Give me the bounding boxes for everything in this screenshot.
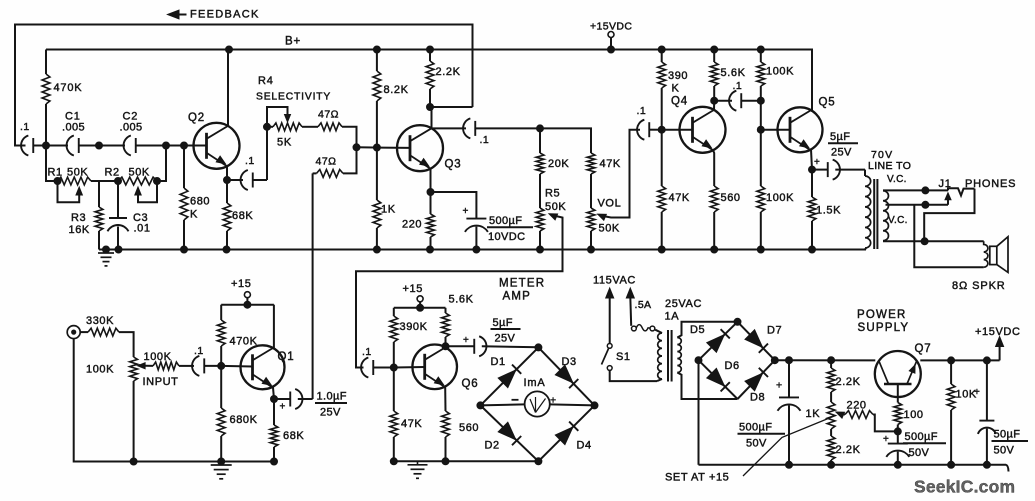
diode D5 <box>707 329 730 352</box>
junction <box>757 97 764 104</box>
label R5 50K <box>545 188 566 214</box>
diode D7 <box>745 330 768 353</box>
capacitor 500uF/50V filter1 <box>778 360 801 465</box>
label PHONES <box>965 178 1016 190</box>
svg-text:220: 220 <box>402 219 422 231</box>
wire feedback tap <box>430 106 473 108</box>
junction Q2 emitter node <box>224 177 231 184</box>
svg-text:5.6K: 5.6K <box>721 67 746 79</box>
resistor 5.6K <box>710 50 718 101</box>
svg-text:680: 680 <box>190 196 210 208</box>
svg-text:100K: 100K <box>144 351 172 363</box>
junction <box>417 304 424 311</box>
svg-text:.5A: .5A <box>635 299 652 311</box>
resistor 2.2K Q3 <box>426 50 434 108</box>
svg-text:.005: .005 <box>62 122 85 134</box>
wire <box>136 145 194 147</box>
feedback arrow <box>168 10 187 19</box>
connector input jack <box>67 326 80 339</box>
label + 1.0uF <box>280 402 286 413</box>
diode D2 <box>498 422 521 445</box>
svg-text:2.2K: 2.2K <box>436 66 461 78</box>
capacitor C1 .005 <box>67 136 79 156</box>
junction Q3 emitter node <box>427 189 434 196</box>
svg-text:R4: R4 <box>258 75 274 87</box>
label 8ohm SPKR <box>952 280 1006 292</box>
label 47ohm top <box>318 109 339 121</box>
svg-text:AMP: AMP <box>503 291 532 303</box>
resistor 47K mid <box>587 153 595 208</box>
ground <box>98 250 114 266</box>
diode D1 <box>498 365 521 388</box>
label 100 Q7 <box>904 409 924 421</box>
resistor 2.2K lower <box>827 429 835 465</box>
jack J1 plug <box>948 188 975 195</box>
wire R5 wiper <box>356 214 563 368</box>
label 680 K <box>190 196 210 221</box>
label 470K Q1 <box>230 336 258 348</box>
junction <box>828 461 835 468</box>
junction <box>537 125 544 132</box>
junction <box>223 246 230 253</box>
label Q4 <box>671 96 688 108</box>
wire 115VAC lead 1 <box>606 288 614 343</box>
label 5K <box>277 137 292 149</box>
svg-text:.1: .1 <box>362 346 372 358</box>
label 5uF 25V Q5 <box>828 131 858 159</box>
junction <box>757 246 764 253</box>
svg-text:ImA: ImA <box>524 377 546 389</box>
svg-text:.01: .01 <box>134 223 151 235</box>
bridge edge <box>480 405 538 461</box>
svg-text:SeekIC.com: SeekIC.com <box>914 477 1015 497</box>
label R4 <box>258 75 274 87</box>
svg-text:470K: 470K <box>54 82 83 94</box>
svg-text:390K: 390K <box>400 321 428 333</box>
speaker SPKR <box>990 237 1008 273</box>
bridge edge <box>699 360 738 399</box>
junction <box>948 357 955 364</box>
junction <box>809 246 816 253</box>
junction <box>218 458 225 465</box>
label + 50uF <box>974 387 980 398</box>
wire <box>79 145 125 147</box>
svg-text:330K: 330K <box>86 315 114 327</box>
label 47ohm bottom <box>316 156 337 168</box>
junction <box>181 246 188 253</box>
junction node A2 <box>96 142 103 149</box>
junction PSU bridge top <box>734 318 741 325</box>
capacitor 50uF/50V <box>978 360 996 464</box>
svg-text:50K: 50K <box>67 167 88 179</box>
svg-text:390: 390 <box>668 70 688 82</box>
label 10K <box>956 389 977 401</box>
bridge edge <box>738 360 775 399</box>
svg-text:1.5K: 1.5K <box>816 205 841 217</box>
resistor 5.6K meter <box>442 308 450 347</box>
svg-text:.1: .1 <box>637 105 647 117</box>
label 47K Q4 <box>669 192 690 204</box>
wire input wiper <box>138 363 153 369</box>
wire <box>540 128 591 153</box>
label + 5uF meter <box>463 335 469 346</box>
potentiometer R5 50K <box>536 208 544 250</box>
label 390K meter <box>400 321 428 333</box>
wire Q6 emitter <box>444 387 446 411</box>
svg-text:Q7: Q7 <box>915 343 932 355</box>
svg-text:100: 100 <box>904 409 924 421</box>
svg-text:Q1: Q1 <box>278 351 295 363</box>
label 1K <box>381 204 396 216</box>
label plus <box>550 395 556 407</box>
svg-text:50µF: 50µF <box>994 429 1021 441</box>
junction B+/100K <box>757 46 764 53</box>
wire Q1 emitter <box>273 388 274 400</box>
svg-text:.1: .1 <box>194 345 204 357</box>
label 500uF 50V filter2 <box>903 431 946 459</box>
label 2.2K Q3 <box>436 66 461 78</box>
resistor 680K Q1 <box>217 366 225 462</box>
label D7 <box>767 325 782 337</box>
svg-text:47K: 47K <box>669 192 690 204</box>
junction <box>264 123 271 130</box>
label SELECTIVITY <box>256 92 331 103</box>
label + 500uF <box>463 206 469 217</box>
label R3 16K <box>69 212 90 236</box>
svg-text:D7: D7 <box>767 325 782 337</box>
svg-text:16K: 16K <box>69 224 90 236</box>
resistor 220 PSU <box>845 411 898 432</box>
label B+ <box>285 36 301 48</box>
label minus <box>512 399 519 401</box>
capacitor .1 Q1 in <box>192 356 221 376</box>
svg-text:D2: D2 <box>485 440 500 452</box>
bridge edge <box>699 322 738 360</box>
svg-text:1.0µF: 1.0µF <box>317 391 347 403</box>
terminal +15VDC top <box>608 32 614 50</box>
wire <box>475 127 540 129</box>
junction <box>786 461 793 468</box>
svg-text:SELECTIVITY: SELECTIVITY <box>256 92 331 103</box>
label 8.2K <box>384 84 409 96</box>
wire speaker loop <box>914 205 983 267</box>
svg-text:V.C.: V.C. <box>888 215 908 226</box>
junction <box>271 458 278 465</box>
transformer T1 primary <box>655 330 662 381</box>
svg-text:Q2: Q2 <box>188 112 205 124</box>
junction Q4 base node <box>658 126 665 133</box>
potentiometer 100K input <box>130 357 138 462</box>
potentiometer VOL 50K <box>587 208 595 250</box>
junction <box>588 246 595 253</box>
junction B+/+15VDC <box>608 46 615 53</box>
label 1mA <box>524 377 546 389</box>
svg-text:+: + <box>550 395 556 407</box>
watermark SeekIC.com <box>914 477 1015 497</box>
wire PSU top rail right <box>920 359 999 361</box>
resistor 1K <box>373 148 381 250</box>
junction <box>786 357 793 364</box>
resistor 1.5K <box>808 170 816 250</box>
resistor 47K Q4 <box>658 130 666 250</box>
resistor 680K <box>180 146 188 250</box>
junction <box>983 461 990 468</box>
junction node B <box>922 201 929 208</box>
wire phones return <box>924 189 974 242</box>
resistor 68K <box>223 180 231 250</box>
svg-text:PHONES: PHONES <box>965 178 1016 190</box>
capacitor 1.0uF/25V <box>274 389 313 409</box>
junction <box>442 458 449 465</box>
label D8 <box>750 392 765 404</box>
svg-text:.1: .1 <box>733 80 743 92</box>
label 2.2K lower <box>836 444 861 456</box>
label INPUT <box>143 376 179 388</box>
svg-text:+: + <box>814 157 820 168</box>
label D2 <box>485 440 500 452</box>
svg-text:D1: D1 <box>491 356 506 368</box>
wire +15 bus meter <box>394 307 446 309</box>
junction <box>244 301 251 308</box>
svg-text:FEEDBACK: FEEDBACK <box>190 9 260 21</box>
label 47K mid <box>600 158 621 170</box>
svg-text:SUPPLY: SUPPLY <box>858 322 910 334</box>
wire Q4 base <box>662 129 693 131</box>
wire secondary tap <box>886 204 949 206</box>
resistor 470K <box>42 50 50 146</box>
wire 115VAC lead 2 <box>626 288 634 326</box>
label D5 <box>690 324 705 336</box>
junction <box>390 458 397 465</box>
wire B+ rail <box>46 50 812 112</box>
wire PSU negative <box>698 360 700 465</box>
svg-text:5µF: 5µF <box>493 317 513 329</box>
junction Q4 collector node <box>711 97 718 104</box>
label D4 <box>577 440 592 452</box>
svg-text:560: 560 <box>721 192 741 204</box>
svg-text:Q5: Q5 <box>819 97 836 109</box>
label 68K <box>232 210 253 222</box>
svg-text:1K: 1K <box>806 408 821 420</box>
junction B+/5.6K <box>711 46 718 53</box>
label 115VAC <box>593 275 636 287</box>
label POWER SUPPLY <box>857 309 909 334</box>
diode D6 <box>707 368 730 391</box>
capacitor .1 VOL out <box>637 120 649 140</box>
label 330K <box>86 315 114 327</box>
resistor 20K <box>536 128 544 208</box>
label 5uF 25V meter <box>491 317 521 345</box>
transistor Q1 <box>241 345 285 389</box>
label 5.6K <box>721 67 746 79</box>
capacitor C2 .005 <box>124 136 136 156</box>
diode D4 <box>555 422 578 445</box>
meter 1mA <box>525 391 550 416</box>
svg-text:+: + <box>463 335 469 346</box>
junction bridge right <box>591 402 598 409</box>
junction <box>711 246 718 253</box>
label 100K series <box>144 351 172 363</box>
junction bridge left <box>477 402 484 409</box>
wire selectivity riser <box>266 127 268 180</box>
wire Q2 collector <box>227 50 229 126</box>
resistor 100 Q7 <box>894 403 902 432</box>
wire <box>610 370 657 381</box>
label Q5 <box>819 97 836 109</box>
label 1.0uF 25V <box>315 391 347 419</box>
svg-text:R2: R2 <box>105 167 120 179</box>
resistor 47K meter <box>390 368 398 462</box>
resistor 560 meter <box>442 411 450 461</box>
svg-text:25V: 25V <box>320 407 341 419</box>
transistor Q7 <box>875 351 921 403</box>
wire feedback loop <box>15 25 473 146</box>
transformer T1 core <box>668 330 672 382</box>
junction <box>373 246 380 253</box>
resistor 100K lower <box>757 130 765 250</box>
label R1 50K <box>48 167 89 179</box>
wire Q3 emitter <box>430 169 432 192</box>
potentiometer R2 50K <box>115 177 161 185</box>
label Q7 <box>915 343 932 355</box>
svg-text:.1: .1 <box>245 155 255 167</box>
meter 1mA wires <box>480 404 594 405</box>
resistor 330K <box>80 328 133 357</box>
wire input ground rail <box>74 339 274 462</box>
wire <box>91 180 118 182</box>
wire +15 bus Q1 <box>221 304 274 306</box>
wire Q5 base <box>761 129 790 131</box>
resistor 560 Q4 <box>710 186 718 250</box>
svg-text:LINE TO: LINE TO <box>868 160 911 172</box>
junction node A1 <box>43 142 50 149</box>
junction <box>473 246 480 253</box>
label 560 meter <box>459 422 479 434</box>
junction <box>115 246 122 253</box>
resistor 390K <box>658 50 666 130</box>
junction Q6 base node <box>390 364 397 371</box>
wire Q6 collector <box>445 346 448 348</box>
capacitor .1 Q2 out <box>227 170 267 190</box>
svg-text:50K: 50K <box>129 167 150 179</box>
resistor 68K Q1 <box>270 399 278 462</box>
bridge edge <box>480 347 538 405</box>
svg-text:+: + <box>883 434 889 445</box>
label VOL <box>598 198 622 210</box>
transformer T1 secondary <box>677 338 681 373</box>
label J1 <box>939 178 952 190</box>
svg-text:R5: R5 <box>545 188 560 200</box>
junction <box>828 357 835 364</box>
label 20K <box>548 158 569 170</box>
svg-text:POWER: POWER <box>857 309 906 321</box>
junction <box>373 144 380 151</box>
wire VOL wiper <box>598 130 640 221</box>
label Q6 <box>462 378 479 390</box>
wire R2 wiper <box>135 181 157 202</box>
label 47K meter <box>401 418 422 430</box>
svg-text:50V: 50V <box>994 445 1015 457</box>
wire 1K wiper <box>836 412 845 418</box>
label 680K Q1 <box>230 414 258 426</box>
label Q3 <box>445 159 462 171</box>
junction Q3 base node <box>353 144 360 151</box>
speaker voice coil <box>984 241 988 267</box>
label 1K pot <box>806 408 821 420</box>
transistor Q3 <box>397 125 443 171</box>
wire Q3 output <box>430 127 466 129</box>
capacitor 500uF/10VDC <box>431 192 488 250</box>
svg-text:D4: D4 <box>577 440 592 452</box>
svg-text:+15VDC: +15VDC <box>590 21 632 33</box>
bridge edge <box>738 322 775 360</box>
wire secondary bottom <box>883 240 984 242</box>
junction <box>658 246 665 253</box>
label METER AMP <box>499 278 545 303</box>
wire Q2 base <box>184 145 207 147</box>
capacitor .1 input left <box>21 136 33 156</box>
label .1 Q1 in <box>194 345 204 357</box>
label V.C. lower <box>888 215 908 226</box>
svg-text:220: 220 <box>847 400 867 412</box>
svg-text:47K: 47K <box>600 158 621 170</box>
fuse .5A <box>632 325 655 331</box>
junction PSU bridge left <box>695 357 702 364</box>
label C3 .01 <box>133 212 151 235</box>
wire <box>373 367 394 369</box>
wire +15VDC out <box>996 337 1004 361</box>
transistor Q4 <box>680 107 726 153</box>
svg-text:100K: 100K <box>86 364 114 376</box>
svg-text:100K: 100K <box>766 66 794 78</box>
label + filter2 <box>883 434 889 445</box>
svg-text:J1: J1 <box>939 178 952 190</box>
svg-text:METER: METER <box>499 278 545 290</box>
wire PSU top rail left <box>775 359 876 361</box>
label 68K Q1 <box>283 430 304 442</box>
wire meter rail <box>394 460 539 462</box>
label C2 <box>120 111 143 134</box>
label 100K lower <box>766 192 794 204</box>
junction <box>983 357 990 364</box>
svg-text:68K: 68K <box>232 210 253 222</box>
svg-text:R1: R1 <box>48 167 63 179</box>
transformer T2 primary <box>865 170 871 250</box>
svg-text:500µF: 500µF <box>739 422 772 434</box>
label D1 <box>491 356 506 368</box>
svg-text:S1: S1 <box>616 351 631 363</box>
svg-text:2.2K: 2.2K <box>836 444 861 456</box>
bridge edge <box>538 405 594 461</box>
wire secondary bottom T1 <box>677 373 737 400</box>
svg-text:50K: 50K <box>545 201 566 213</box>
svg-text:+: + <box>776 380 782 392</box>
svg-text:1A: 1A <box>665 311 680 323</box>
terminal +15 Q1 <box>244 292 250 305</box>
wire Q1 coupling riser <box>312 173 314 399</box>
label 390 K <box>668 70 688 95</box>
wire Q3 collector <box>431 107 433 128</box>
junction B+/2.2K <box>427 46 434 53</box>
svg-text:R3: R3 <box>71 212 86 224</box>
svg-text:+: + <box>280 402 286 413</box>
svg-text:K: K <box>672 83 680 95</box>
potentiometer 1K <box>827 402 835 429</box>
junction Q6 collector node <box>442 343 449 350</box>
terminal +15 meter <box>417 296 423 308</box>
junction Q1 base node <box>218 362 225 369</box>
capacitor .1 Q3 out <box>463 118 475 138</box>
